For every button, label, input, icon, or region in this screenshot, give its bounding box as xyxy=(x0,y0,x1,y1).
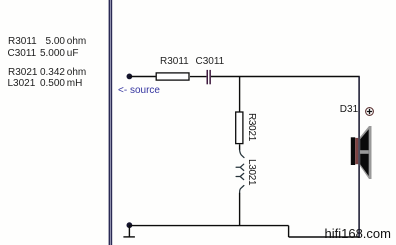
left border double line xyxy=(109,0,113,245)
resistor R3011 xyxy=(156,73,189,80)
wire right side vertical through speaker xyxy=(358,77,360,238)
junction node at middle branch xyxy=(239,77,241,113)
inductor L3021 xyxy=(236,150,244,193)
component label R3021 (rotated) xyxy=(246,113,256,141)
component label R3011 xyxy=(160,57,189,67)
polarity mark (+) of D31 xyxy=(366,108,374,116)
node: source terminal dot xyxy=(127,74,132,79)
wire R3011 to C3011 xyxy=(190,76,206,78)
wire R3021 to L3021 xyxy=(239,144,241,150)
component label C3011 xyxy=(196,57,225,67)
bottom wire step down xyxy=(288,226,290,237)
wire source to R3011 xyxy=(129,76,155,78)
wire C3011 to junction to right corner xyxy=(211,76,360,78)
bottom wire ground to step xyxy=(129,225,288,227)
value label R3021 0.342 ohm xyxy=(8,68,37,78)
wire L3021 to bottom wire xyxy=(239,193,241,226)
speaker D31 symbol xyxy=(351,126,372,179)
ground symbol xyxy=(123,226,134,237)
watermark hifi168.com xyxy=(325,227,391,240)
value label R3011 5.00 ohm xyxy=(8,37,37,47)
value label L3021 0.500 mH xyxy=(8,79,36,89)
value label C3011 5.000 uF xyxy=(8,49,37,59)
component label L3021 (rotated) xyxy=(246,159,256,185)
bottom wire to speaker xyxy=(289,236,360,238)
node: source input label xyxy=(118,86,160,96)
capacitor C3011 xyxy=(207,70,211,84)
resistor R3021 xyxy=(236,112,243,144)
component label D31 xyxy=(340,105,358,115)
ground node dot xyxy=(127,223,132,228)
